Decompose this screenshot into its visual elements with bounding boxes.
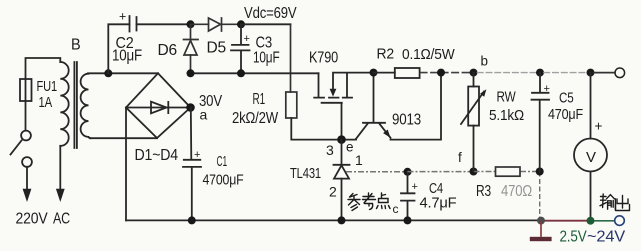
arrow 220V lead <box>23 189 32 202</box>
svg-text:9013: 9013 <box>392 112 421 129</box>
svg-text:10μF: 10μF <box>112 48 142 65</box>
svg-text:e: e <box>346 140 353 155</box>
svg-text:c: c <box>393 202 399 216</box>
capacitor C4 <box>401 172 415 221</box>
junction C5 top <box>536 69 544 77</box>
wire ref line to node f <box>408 171 474 173</box>
svg-text:R3: R3 <box>476 183 491 200</box>
junction voltmeter top <box>587 69 595 77</box>
svg-text:K790: K790 <box>309 50 338 67</box>
svg-text:+: + <box>412 181 418 193</box>
resistor R1 <box>286 92 297 118</box>
wire to plus terminal <box>594 72 615 74</box>
svg-text:4700μF: 4700μF <box>203 172 244 189</box>
svg-text:0.1Ω/5W: 0.1Ω/5W <box>402 46 455 63</box>
wire R1 bottom to node e <box>291 118 356 140</box>
svg-text:4.7μF: 4.7μF <box>420 195 457 212</box>
shunt regulator TL431 <box>334 140 350 221</box>
svg-text:~24V: ~24V <box>587 229 626 246</box>
wire mains left with fuse lead <box>26 58 61 131</box>
bridge rectifier D1-D4 <box>126 73 191 138</box>
wire secondary bottom to bridge <box>90 137 157 139</box>
wire 30V rail <box>191 72 319 74</box>
wire C5 to voltmeter top <box>543 72 587 74</box>
MOSFET K790 <box>314 73 373 140</box>
svg-text:V: V <box>586 149 596 166</box>
svg-text:+: + <box>194 149 200 161</box>
junction node f <box>470 168 478 176</box>
transformer B primary winding <box>60 62 68 146</box>
junction 9013 base rail <box>370 69 378 77</box>
transformer core <box>74 62 77 148</box>
transformer B secondary winding <box>81 74 91 139</box>
svg-text:470Ω: 470Ω <box>501 183 532 200</box>
junction node b <box>470 69 478 77</box>
svg-text:5.1kΩ: 5.1kΩ <box>489 107 524 124</box>
svg-text:AC: AC <box>53 211 70 228</box>
capacitor C5 <box>532 73 550 172</box>
svg-text:10μF: 10μF <box>253 50 280 67</box>
junction C1 ground <box>188 216 196 224</box>
wire R2 to b <box>420 72 474 74</box>
svg-text:D6: D6 <box>158 42 178 59</box>
junction node e <box>337 135 346 144</box>
junction secondary C2 node <box>104 69 112 77</box>
wire secondary top to bridge <box>88 72 158 74</box>
junction C4 ground <box>404 216 412 224</box>
wire R1 top lead <box>290 24 292 92</box>
wire C2 to D5 node <box>137 23 191 25</box>
svg-text:3: 3 <box>326 142 334 158</box>
svg-text:2: 2 <box>329 184 337 200</box>
junction Vdc node <box>237 20 245 28</box>
resistor R3 <box>474 167 540 176</box>
svg-text:470μF: 470μF <box>548 106 583 123</box>
svg-text:+: + <box>544 83 550 95</box>
junction C3 bottom <box>237 69 245 77</box>
svg-text:2kΩ/2W: 2kΩ/2W <box>232 110 278 127</box>
svg-text:D1~D4: D1~D4 <box>135 147 179 164</box>
junction voltmeter ground <box>587 217 595 225</box>
wire TL431 ref to C4 node <box>346 171 408 173</box>
junction C2 D5 D6 <box>187 20 195 28</box>
svg-text:1: 1 <box>355 152 363 168</box>
terminal output minus <box>615 216 625 226</box>
resistor R2 <box>395 68 420 78</box>
potentiometer RW <box>461 73 486 172</box>
capacitor C2 <box>130 16 137 32</box>
terminal output plus <box>615 68 625 78</box>
junction ground reference <box>537 217 545 225</box>
junction TL431 ground <box>338 216 346 224</box>
transistor 9013 <box>356 73 441 140</box>
svg-text:+: + <box>595 119 603 134</box>
wire output negative green segment <box>587 220 615 222</box>
wire R3 node to ground <box>539 172 541 221</box>
svg-text:B: B <box>71 37 81 54</box>
label shuchu (output) <box>600 194 630 211</box>
wire output negative maroon segment <box>541 220 587 222</box>
svg-text:RW: RW <box>497 89 517 106</box>
svg-text:Vdc=69V: Vdc=69V <box>244 5 297 22</box>
svg-text:1A: 1A <box>39 94 53 111</box>
label cankaodian (reference point) <box>348 193 390 211</box>
svg-text:TL431: TL431 <box>290 165 321 182</box>
svg-text:2.5V: 2.5V <box>560 229 587 246</box>
wire ground rail <box>126 219 541 221</box>
svg-text:f: f <box>458 150 462 165</box>
switch S <box>11 131 32 190</box>
svg-text:R1: R1 <box>253 91 266 108</box>
svg-text:b: b <box>481 54 488 69</box>
svg-text:+: + <box>119 10 126 24</box>
junction R3 right <box>536 168 544 176</box>
junction node a <box>186 103 195 112</box>
wire bridge left to ground rail <box>125 108 127 221</box>
voltmeter V <box>574 73 607 221</box>
wire C2 left leg <box>108 24 129 73</box>
wire rail to R2 <box>374 72 395 74</box>
fuse FU1 <box>20 79 32 101</box>
arrow AC lead <box>56 189 65 202</box>
wire Vdc rail to R1 <box>241 23 291 25</box>
diode D6 <box>184 24 199 73</box>
svg-text:C1: C1 <box>217 153 228 170</box>
svg-text:D5: D5 <box>207 40 227 57</box>
svg-text:+: + <box>244 33 250 45</box>
capacitor C3 <box>231 24 250 73</box>
svg-text:R2: R2 <box>377 46 395 63</box>
svg-text:FU1: FU1 <box>37 78 58 95</box>
svg-text:220V: 220V <box>16 211 48 228</box>
svg-text:a: a <box>200 107 208 123</box>
diode D5 <box>191 18 242 31</box>
junction D6 anode <box>187 69 195 77</box>
ground symbol <box>530 221 552 242</box>
svg-text:C5: C5 <box>559 90 574 107</box>
junction emitter return <box>437 69 445 77</box>
capacitor C1 <box>183 108 201 221</box>
wire b to C5 <box>477 72 540 74</box>
junction C4 node <box>404 168 412 176</box>
wire primary bottom lead <box>59 146 61 190</box>
